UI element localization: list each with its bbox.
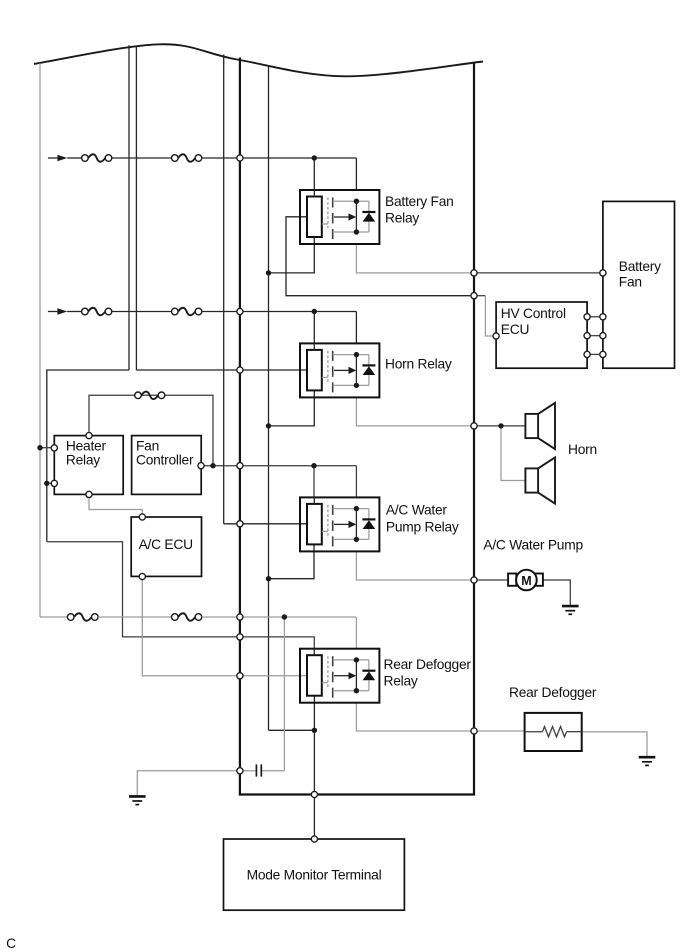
connector: heater relay left pin 1 (51, 445, 57, 451)
wire: gray supply row y=617 with fuses (40, 616, 67, 618)
svg-text:Controller: Controller (136, 452, 194, 467)
a/c water pump relay transistor gate line (dashed) (327, 505, 329, 538)
battery fan relay coil top lead wire (313, 190, 315, 197)
battery fan relay transistor channel segments (332, 198, 334, 240)
connector: a/c ecu top pin (139, 514, 145, 520)
svg-text:Relay: Relay (384, 674, 418, 689)
battery fan relay transistor gate line (dashed) (327, 198, 329, 231)
wire harness torn-edge wave at top (34, 44, 483, 76)
connector: trunk x239 row2 (237, 308, 243, 314)
wire: heater relay bottom to a/c ecu top (89, 494, 142, 517)
wire: feed row2 to horn relay (202, 311, 357, 313)
battery fan relay box outline (300, 190, 379, 244)
connector: heater relay bottom pin (86, 491, 92, 497)
fusible link row4 right (172, 613, 202, 621)
component box: Heater Relay (54, 436, 123, 495)
horn relay body diode cathode bar (362, 364, 375, 366)
wire: feed row2 middle segment (112, 311, 172, 313)
wire: vertical bus line x=129 from torn edge (128, 45, 130, 370)
ground: a/c water pump ground (562, 606, 579, 614)
battery fan relay source junction dot (354, 229, 359, 234)
connector: heater relay left pin 2 (51, 480, 57, 486)
fusible link row2 right (172, 308, 202, 316)
rear defogger relay drain junction dot (354, 657, 359, 662)
wire: trunk to rear defogger (474, 730, 524, 732)
svg-text:Pump Relay: Pump Relay (386, 520, 459, 535)
connector: hv ecu right pin 3 (584, 351, 590, 357)
svg-text:Mode Monitor Terminal: Mode Monitor Terminal (247, 868, 382, 883)
horn relay drain-source vertical wire (355, 355, 357, 386)
battery fan relay gate stub from coil to transistor gate (322, 223, 328, 225)
wire: thick harness trunk line x=239.9 (239, 58, 241, 795)
horn relay source arrow (334, 367, 356, 374)
wire: over to x=122.5, down, to rear defogger coil top feed (47, 542, 315, 649)
a/c water pump relay coil top lead wire (313, 497, 315, 504)
connector: fan controller output pin (198, 463, 204, 469)
wire: rear defogger coil bottom down to mode monitor terminal (313, 696, 315, 839)
connector: trunk x473 defogger row (471, 728, 477, 734)
connector: trunk x239 pump coil row (237, 521, 243, 527)
wire: battery fan relay coil bottom to return bus (269, 237, 315, 273)
a/c water pump relay box outline (300, 497, 379, 551)
component box: Mode Monitor Terminal (224, 839, 405, 910)
wire: thick harness bottom run y=794.5 (239, 793, 475, 795)
a/c water pump relay body diode connector wires (368, 509, 370, 540)
junction: coil return bus / rear defogger coil bottom (312, 728, 317, 733)
svg-text:C: C (6, 936, 16, 951)
connector: battery fan pin 3 (600, 351, 606, 357)
rear defogger relay coil winding rectangle (307, 655, 322, 696)
wire: vertical bus line x=136.4 from torn edge (135, 46, 137, 370)
a/c water pump motor symbol (508, 570, 543, 591)
horn relay box outline (300, 343, 379, 397)
connector: heater relay top pin (86, 433, 92, 439)
component box: Battery Fan (603, 201, 675, 368)
wire: hv control ecu to battery fan link 3 (587, 353, 603, 355)
wire: feed row2 segment to fuse (67, 311, 81, 313)
ground: body ground left (129, 796, 146, 804)
wire: vertical bus line x=223.7 from torn edge (223, 55, 225, 524)
wire: trunk to a/c water pump motor (474, 579, 508, 581)
battery fan relay body diode cathode bar (362, 211, 375, 213)
svg-text:A/C Water: A/C Water (386, 503, 448, 518)
connector: mode monitor terminal pin (311, 836, 317, 842)
wire: horn relay drain feed drop (355, 312, 357, 345)
wire: battery fan relay drain feed drop (355, 158, 357, 191)
connector: trunk x473 hv ecu row (471, 293, 477, 299)
fusible link row1 left (82, 154, 112, 162)
fusible link row1 right (172, 154, 202, 162)
wire: bus x=223.7 to a/c pump relay coil left (224, 523, 307, 525)
rear defogger relay drain link wire (333, 659, 369, 661)
wire: horn relay coil bottom to return bus (269, 390, 315, 426)
capacitor (noise filter) (256, 764, 261, 776)
wire: branch to horn 2 (501, 426, 525, 481)
battery fan relay drain-source vertical wire (355, 201, 357, 232)
a/c water pump relay source arrow (334, 521, 356, 528)
rear defogger relay source link wire (333, 690, 369, 692)
junction: horn branch (498, 423, 503, 428)
wire: a/c pump relay coil top feed drop (313, 466, 315, 498)
junction: row2 / coil top (312, 309, 317, 314)
horn speaker 1 (525, 403, 555, 449)
rear defogger relay gate stub from coil to transistor gate (322, 682, 328, 684)
connector: a/c ecu bottom pin (139, 573, 145, 579)
connector: trunk x239 row1 (237, 155, 243, 161)
svg-text:Horn Relay: Horn Relay (385, 357, 452, 372)
rear defogger heater element box with resistor (525, 713, 582, 751)
rear defogger relay body diode connector wires (368, 660, 370, 691)
fusible link heater relay branch (135, 392, 165, 400)
connector: battery fan power pin (600, 270, 606, 276)
connector: battery fan pin 2 (600, 333, 606, 339)
horn relay drain link wire (333, 354, 369, 356)
horn relay body diode triangle (363, 366, 376, 375)
connector: hv control ecu left pin (493, 333, 499, 339)
wire: a/c water pump motor to ground (543, 580, 570, 606)
svg-text:Battery: Battery (619, 259, 661, 274)
horn speaker 2 (525, 457, 555, 503)
wire: battery fan relay coil left over x=286 down to hv ecu row (286, 217, 474, 296)
ground: rear defogger ground (639, 757, 656, 765)
connector: trunk x239 rear def coil top row (237, 634, 243, 640)
svg-text:Fan: Fan (619, 275, 642, 290)
svg-text:Rear Defogger: Rear Defogger (509, 685, 597, 700)
svg-text:Relay: Relay (66, 452, 100, 467)
a/c water pump relay drain link wire (333, 508, 369, 510)
junction: coil return bus / battery fan coil (266, 270, 271, 275)
connector: trunk x239 horn coil row (237, 367, 243, 373)
wire: heater relay top feed with fuse down from fan controller net (89, 395, 213, 465)
a/c water pump relay gate stub from coil to transistor gate (322, 530, 328, 532)
arrow: battery feed row 2 (48, 308, 67, 315)
wire: trunk capacitor row to left ground (137, 771, 240, 796)
component box: Fan Controller (132, 436, 202, 495)
wire: relay coil return vertical x=268.5 (268, 66, 270, 731)
svg-text:A/C Water Pump: A/C Water Pump (483, 537, 583, 552)
junction: row1 / coil top (312, 155, 317, 160)
wire: rear defogger relay drain feed drop (355, 617, 357, 650)
wire: bus x=136.4 to horn relay coil left (136, 369, 307, 371)
rear defogger relay transistor gate line (dashed) (327, 656, 329, 689)
component box: A/C ECU (131, 517, 201, 576)
fusible link row2 left (82, 308, 112, 316)
battery fan relay body diode connector wires (368, 201, 370, 232)
a/c water pump relay source link wire (333, 538, 369, 540)
wire: rear defogger to ground (582, 732, 647, 757)
a/c water pump relay body diode cathode bar (362, 518, 375, 520)
connector: trunk x473 horn row (471, 423, 477, 429)
rear defogger relay source junction dot (354, 688, 359, 693)
wire: a/c ecu bottom to rear defogger relay coil left (142, 577, 307, 676)
svg-text:Rear Defogger: Rear Defogger (384, 657, 472, 672)
wire: noise capacitor branch vertical x=284.4 (283, 617, 285, 771)
horn relay transistor channel segments (332, 351, 334, 393)
svg-text:HV Control: HV Control (501, 306, 566, 321)
wire: rear defogger relay output to trunk (356, 702, 474, 731)
wire: thick harness trunk line x=474.0 (473, 64, 475, 795)
wire: stub to heater relay pin 1 (40, 447, 54, 449)
a/c water pump relay drain junction dot (354, 506, 359, 511)
wire: hv control ecu to battery fan link 2 (587, 335, 603, 337)
wire: jog from trunk toward hv ecu (474, 295, 486, 297)
wire: trunk to battery fan motor (474, 272, 600, 274)
a/c water pump relay coil winding rectangle (307, 504, 322, 545)
connector: trunk x239 rear def coil left row (237, 673, 243, 679)
horn relay source junction dot (354, 383, 359, 388)
battery fan relay drain link wire (333, 200, 369, 202)
connector: battery fan pin 1 (600, 314, 606, 320)
wire: return bus to rear defogger coil bottom junction (269, 729, 315, 731)
svg-text:ECU: ECU (501, 322, 529, 337)
wire: hv control ecu to battery fan link 1 (587, 316, 603, 318)
junction: row4 / capacitor branch (282, 614, 287, 619)
wire: feed row1 to battery fan relay (202, 157, 357, 159)
a/c water pump relay body diode triangle (363, 520, 376, 529)
rear defogger relay body diode triangle (363, 672, 376, 681)
connector: trunk x473 battery fan row (471, 270, 477, 276)
wire: left gray supply vertical x=40 (39, 63, 41, 617)
wire: trunk to capacitor (240, 770, 256, 772)
wire: horn relay coil top feed drop (313, 312, 315, 344)
wire: fan controller output row to a/c water pump relay (201, 465, 356, 467)
wire: trunk to horn 1 (474, 425, 526, 427)
wire: bus x=129 jog left and down x=46.8 (47, 370, 129, 542)
horn relay source link wire (333, 384, 369, 386)
wire: a/c pump relay drain feed drop (355, 466, 357, 499)
horn relay coil winding rectangle (307, 350, 322, 391)
connector: trunk x239 row4 (237, 614, 243, 620)
rear defogger relay drain-source vertical wire (355, 660, 357, 691)
arrow: battery feed row 1 (48, 155, 67, 162)
a/c water pump relay drain-source vertical wire (355, 509, 357, 540)
svg-text:Fan: Fan (136, 438, 159, 453)
wire: stub to heater relay pin 2 (47, 482, 55, 484)
battery fan relay source arrow (334, 213, 356, 220)
battery fan relay source link wire (333, 231, 369, 233)
battery fan relay drain junction dot (354, 199, 359, 204)
junction: gray vertical / heater pin1 stub (37, 445, 42, 450)
wire: horn relay output to trunk (356, 397, 474, 426)
connector: trunk x239 fan controller row (237, 463, 243, 469)
wire: a/c pump relay coil bottom to return bus (269, 544, 315, 579)
wire: jog down to hv control ecu pin (485, 296, 493, 336)
horn relay gate stub from coil to transistor gate (322, 376, 328, 378)
svg-text:A/C ECU: A/C ECU (139, 537, 193, 552)
rear defogger relay box outline (300, 649, 379, 703)
fusible link row4 left (67, 613, 98, 621)
junction: coil return bus / horn coil (266, 423, 271, 428)
wire: a/c pump relay output to trunk (356, 551, 474, 580)
rear defogger relay coil top lead wire (313, 648, 315, 655)
connector: hv ecu right pin 1 (584, 314, 590, 320)
svg-text:Relay: Relay (385, 211, 419, 226)
rear defogger relay body diode cathode bar (362, 670, 375, 672)
rear defogger relay source arrow (334, 672, 356, 679)
component box: HV Control ECU (496, 302, 587, 368)
wire: feed row1 segment to fuse (67, 157, 81, 159)
connector: trunk x239 capacitor row (237, 768, 243, 774)
wire: capacitor to branch vertical (262, 770, 284, 772)
junction: coil return bus / pump coil (266, 576, 271, 581)
horn relay transistor gate line (dashed) (327, 351, 329, 384)
wire: battery fan relay output to trunk (356, 244, 474, 273)
svg-text:Horn: Horn (568, 442, 597, 457)
wire: feed row1 middle segment (112, 157, 172, 159)
svg-text:M: M (521, 574, 531, 588)
junction: bus drop / heater pin2 stub (44, 481, 49, 486)
junction: fan controller row / pump coil top (311, 463, 316, 468)
connector: bottom run pass-through (311, 791, 317, 797)
svg-text:Heater: Heater (66, 438, 107, 453)
svg-text:Battery Fan: Battery Fan (385, 194, 454, 209)
connector: hv ecu right pin 2 (584, 333, 590, 339)
rear defogger relay transistor channel segments (332, 656, 334, 698)
horn relay drain junction dot (354, 352, 359, 357)
connector: trunk x473 pump row (471, 577, 477, 583)
wire: battery fan relay coil top feed drop (313, 158, 315, 190)
battery fan relay body diode triangle (363, 213, 376, 222)
battery fan relay coil winding rectangle (307, 197, 322, 238)
junction: heater fuse branch / fan controller row (210, 463, 215, 468)
wire: row4 to rear defogger relay drain (202, 616, 357, 618)
a/c water pump relay source junction dot (354, 537, 359, 542)
horn relay body diode connector wires (368, 355, 370, 386)
a/c water pump relay transistor channel segments (332, 505, 334, 547)
horn relay coil top lead wire (313, 343, 315, 350)
